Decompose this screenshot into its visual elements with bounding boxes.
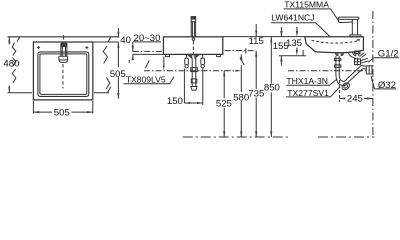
svg-text:TX277SV1: TX277SV1 [287, 88, 329, 98]
svg-text:850: 850 [264, 82, 280, 93]
svg-text:40: 40 [120, 35, 131, 46]
svg-text:LW641NCJ: LW641NCJ [271, 13, 314, 23]
svg-text:505: 505 [54, 108, 70, 119]
svg-text:505: 505 [110, 69, 126, 80]
svg-text:580: 580 [233, 93, 249, 104]
svg-text:480: 480 [3, 59, 19, 70]
svg-text:150: 150 [167, 96, 183, 107]
svg-text:G1/2: G1/2 [378, 49, 399, 60]
svg-text:THX1A-3N: THX1A-3N [286, 76, 328, 86]
svg-text:115: 115 [249, 36, 264, 47]
svg-text:245: 245 [347, 94, 363, 105]
svg-text:Ø32: Ø32 [378, 80, 396, 91]
svg-text:20~30: 20~30 [134, 33, 161, 44]
svg-text:525: 525 [216, 99, 232, 110]
svg-text:735: 735 [248, 88, 264, 99]
svg-text:TX809LV5: TX809LV5 [126, 74, 166, 84]
svg-text:TX115MMA: TX115MMA [284, 0, 329, 9]
svg-text:135: 135 [286, 38, 302, 49]
